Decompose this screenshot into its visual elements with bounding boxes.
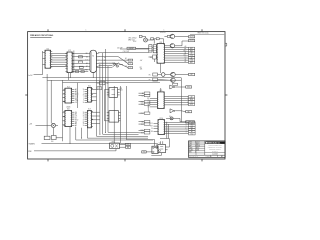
svg-text:19: 19 [83, 95, 85, 97]
svg-text:RST: RST [190, 62, 193, 64]
svg-text:BZ: BZ [191, 74, 193, 76]
svg-text:T1: T1 [130, 59, 132, 61]
svg-text:4011: 4011 [120, 90, 123, 92]
svg-text:CN2: CN2 [106, 83, 109, 85]
svg-text:LS245: LS245 [66, 107, 71, 109]
svg-text:104: 104 [51, 141, 54, 143]
svg-text:RD: RD [86, 53, 88, 55]
svg-text:D1: D1 [151, 128, 153, 130]
svg-text:4-02101: 4-02101 [160, 32, 166, 34]
svg-text:MHZ C12: MHZ C12 [128, 39, 135, 41]
svg-text:SHEET 1/2: SHEET 1/2 [206, 156, 213, 158]
svg-text:VCC: VCC [183, 55, 186, 57]
svg-text:IC10: IC10 [159, 118, 163, 120]
svg-text:WR: WR [147, 98, 149, 100]
svg-text:CS: CS [148, 100, 150, 102]
svg-text:J1: J1 [101, 83, 103, 85]
svg-text:R3: R3 [104, 57, 106, 59]
svg-text:IC8: IC8 [120, 88, 123, 90]
svg-text:REV: REV [189, 151, 192, 153]
svg-text:IC2: IC2 [68, 50, 71, 52]
svg-text:R5: R5 [149, 74, 151, 76]
svg-text:IC5: IC5 [88, 86, 91, 88]
svg-text:19: 19 [83, 119, 85, 121]
svg-text:C10 22P: C10 22P [117, 48, 122, 50]
svg-text:D3: D3 [148, 106, 150, 108]
svg-text:DR 1989-06-12: DR 1989-06-12 [189, 156, 198, 158]
svg-text:18: 18 [83, 112, 85, 114]
svg-text:NONE: NONE [195, 150, 199, 152]
svg-text:19: 19 [83, 114, 85, 116]
svg-text:OUT1: OUT1 [190, 36, 194, 38]
svg-text:0.1U: 0.1U [133, 41, 136, 43]
svg-text:D3: D3 [75, 98, 77, 100]
svg-text:H.MORI: H.MORI [195, 146, 200, 148]
svg-text:19: 19 [83, 89, 85, 91]
svg-text:Q1: Q1 [159, 143, 161, 145]
svg-text:19: 19 [83, 125, 85, 127]
svg-text:TXD: TXD [85, 69, 88, 71]
svg-text:CLK OUT: CLK OUT [123, 51, 130, 53]
svg-text:P2: P2 [98, 88, 100, 90]
svg-text:18: 18 [83, 123, 85, 125]
svg-text:1: 1 [164, 30, 165, 32]
svg-text:18: 18 [83, 116, 85, 118]
svg-text:CONTROL CIRCUIT: CONTROL CIRCUIT [209, 149, 221, 151]
svg-text:MODEL DPU-411 TYPE II: MODEL DPU-411 TYPE II [208, 147, 223, 149]
svg-text:D2: D2 [185, 57, 187, 59]
svg-text:R2: R2 [140, 67, 142, 69]
svg-text:B: B [195, 151, 196, 153]
svg-text:1: 1 [86, 30, 87, 32]
svg-text:VCC: VCC [150, 123, 153, 125]
svg-text:C-1023-B: C-1023-B [212, 154, 218, 156]
svg-text:IC7: IC7 [88, 109, 91, 111]
svg-text:IC1: IC1 [46, 48, 49, 50]
svg-text:D0: D0 [75, 112, 77, 114]
svg-text:D2: D2 [75, 121, 77, 123]
svg-text:C1: C1 [125, 65, 127, 67]
svg-text:OUT2: OUT2 [190, 40, 194, 42]
svg-text:X1: X1 [92, 56, 94, 58]
svg-text:OSC 4.9152: OSC 4.9152 [128, 38, 136, 40]
svg-text:T2: T2 [130, 63, 132, 65]
svg-text:14: 14 [83, 102, 85, 104]
svg-text:RXD: RXD [183, 50, 186, 52]
svg-text:D3: D3 [169, 116, 171, 118]
svg-text:SEIKO ELEC CO.: SEIKO ELEC CO. [208, 142, 221, 144]
svg-text:DWG: DWG [189, 142, 192, 144]
svg-text:RST: RST [150, 126, 153, 128]
svg-text:TXD: TXD [190, 133, 193, 135]
svg-text:D0: D0 [86, 56, 88, 58]
svg-text:CLK: CLK [85, 60, 88, 62]
svg-text:D1: D1 [75, 118, 77, 120]
svg-text:1989.6: 1989.6 [195, 148, 199, 150]
svg-text:D1: D1 [148, 104, 150, 106]
svg-text:IC3: IC3 [159, 42, 162, 44]
svg-text:R8: R8 [150, 57, 152, 59]
svg-text:12: 12 [83, 121, 85, 123]
svg-text:CS: CS [75, 102, 77, 104]
svg-text:IC6: IC6 [67, 109, 70, 111]
svg-text:+5V: +5V [140, 60, 143, 62]
svg-text:CHK: CHK [189, 144, 192, 146]
svg-text:10K: 10K [140, 69, 143, 71]
svg-text:RY1: RY1 [112, 141, 115, 143]
svg-text:T3: T3 [130, 67, 132, 69]
svg-text:CRW: CRW [28, 151, 32, 153]
svg-text:PWB ASSY CIRCUIT DIAG.: PWB ASSY CIRCUIT DIAG. [30, 34, 54, 37]
svg-text:IC4: IC4 [67, 86, 70, 88]
svg-text:B1: B1 [125, 61, 127, 63]
svg-text:WR: WR [184, 48, 186, 50]
svg-text:MICRO PRINTER UNIT: MICRO PRINTER UNIT [208, 145, 222, 147]
svg-text:CS: CS [75, 116, 77, 118]
svg-text:RD: RD [151, 131, 153, 133]
svg-text:D3: D3 [148, 102, 150, 104]
